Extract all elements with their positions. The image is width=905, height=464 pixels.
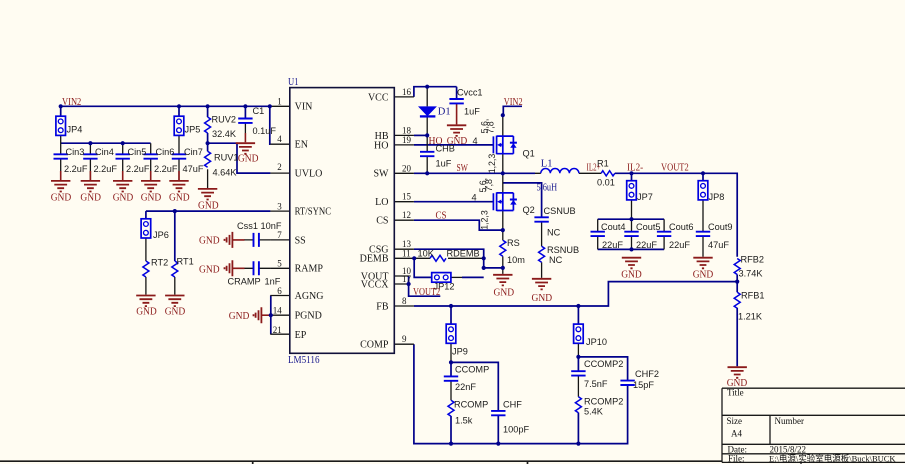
svg-text:Title: Title: [727, 388, 744, 398]
svg-text:GND: GND: [136, 306, 157, 318]
svg-text:1uF: 1uF: [436, 159, 452, 169]
svg-text:4: 4: [472, 193, 477, 203]
svg-text:JP8: JP8: [709, 192, 725, 202]
svg-text:7.5nF: 7.5nF: [584, 379, 608, 389]
svg-text:RCOMP2: RCOMP2: [584, 397, 623, 407]
svg-text:15pF: 15pF: [633, 380, 654, 390]
svg-text:3: 3: [277, 201, 282, 211]
svg-text:RT2: RT2: [151, 258, 168, 268]
svg-text:1: 1: [277, 96, 282, 106]
svg-text:HO: HO: [429, 135, 443, 147]
svg-text:17: 17: [402, 274, 412, 284]
svg-text:CS: CS: [436, 210, 447, 222]
svg-text:GND: GND: [199, 234, 220, 246]
svg-text:Cin7: Cin7: [184, 147, 203, 157]
svg-text:22uF: 22uF: [602, 240, 623, 250]
svg-text:GND: GND: [51, 191, 72, 203]
svg-text:7,8: 7,8: [484, 179, 494, 191]
svg-text:DEMB: DEMB: [360, 254, 389, 265]
svg-text:RUV1: RUV1: [214, 153, 239, 163]
svg-text:10m: 10m: [507, 255, 525, 265]
svg-text:RS: RS: [507, 238, 520, 248]
svg-text:Cout9: Cout9: [708, 222, 733, 232]
svg-text:C1: C1: [253, 106, 265, 116]
svg-text:10nF: 10nF: [261, 221, 282, 231]
svg-text:47uF: 47uF: [708, 240, 729, 250]
svg-text:47uF: 47uF: [183, 164, 204, 174]
svg-text:2.2uF: 2.2uF: [94, 164, 118, 174]
svg-text:10K: 10K: [418, 249, 435, 259]
svg-text:GND: GND: [169, 191, 190, 203]
svg-text:2.2uF: 2.2uF: [154, 164, 178, 174]
svg-text:RFB2: RFB2: [741, 255, 765, 265]
svg-text:JP4: JP4: [67, 125, 83, 135]
svg-text:0.1uF: 0.1uF: [253, 126, 277, 136]
svg-text:CRAMP: CRAMP: [228, 276, 261, 286]
svg-text:EP: EP: [295, 330, 307, 341]
svg-text:20: 20: [402, 163, 412, 173]
svg-text:VIN: VIN: [295, 102, 313, 113]
svg-text:IL2+: IL2+: [587, 161, 601, 173]
svg-text:1,2,3: 1,2,3: [487, 154, 497, 174]
svg-text:Cout6: Cout6: [669, 222, 694, 232]
svg-text:NC: NC: [547, 228, 561, 238]
svg-text:Number: Number: [775, 416, 805, 426]
svg-text:22uF: 22uF: [636, 240, 657, 250]
svg-text:RT/SYNC: RT/SYNC: [295, 207, 332, 218]
svg-text:U1: U1: [288, 77, 299, 88]
svg-text:Size: Size: [727, 416, 743, 426]
svg-text:32.4K: 32.4K: [212, 129, 237, 139]
svg-text:RUV2: RUV2: [212, 115, 237, 125]
svg-text:6: 6: [277, 286, 282, 296]
svg-text:COMP: COMP: [360, 340, 389, 351]
svg-text:Cvcc1: Cvcc1: [457, 88, 483, 98]
svg-text:GND: GND: [447, 135, 468, 147]
svg-text:21: 21: [273, 325, 282, 335]
svg-text:JP10: JP10: [586, 337, 607, 347]
svg-text:GND: GND: [113, 191, 134, 203]
svg-text:22nF: 22nF: [455, 382, 476, 392]
svg-text:LM5116: LM5116: [288, 355, 320, 366]
svg-text:4: 4: [277, 134, 282, 144]
svg-text:2.2uF: 2.2uF: [126, 164, 150, 174]
svg-text:9: 9: [402, 334, 407, 344]
svg-text:UVLO: UVLO: [295, 169, 323, 180]
svg-text:NC: NC: [549, 255, 563, 265]
svg-text:VOUT2: VOUT2: [413, 286, 440, 298]
svg-text:7,8: 7,8: [486, 121, 496, 133]
svg-text:Q2: Q2: [523, 205, 535, 215]
svg-text:5: 5: [277, 258, 282, 268]
svg-text:SS: SS: [295, 235, 306, 246]
svg-text:L1: L1: [541, 159, 553, 170]
svg-text:CS: CS: [376, 216, 388, 227]
svg-text:1.5k: 1.5k: [455, 416, 473, 426]
svg-text:15: 15: [402, 192, 412, 202]
svg-text:100pF: 100pF: [503, 425, 529, 435]
svg-text:AGNG: AGNG: [295, 291, 324, 302]
svg-text:VIN2: VIN2: [62, 96, 81, 108]
svg-text:JP5: JP5: [185, 125, 201, 135]
svg-text:GND: GND: [621, 268, 642, 280]
svg-text:Cout4: Cout4: [601, 222, 626, 232]
svg-text:CHF2: CHF2: [635, 369, 659, 379]
svg-text:CCOMP: CCOMP: [455, 365, 489, 375]
svg-text:1,2,3: 1,2,3: [479, 210, 489, 230]
svg-text:VCCX: VCCX: [361, 279, 390, 290]
svg-text:Cin5: Cin5: [128, 147, 147, 157]
svg-text:CSNUB: CSNUB: [544, 206, 576, 216]
svg-text:16: 16: [402, 87, 412, 97]
svg-text:PGND: PGND: [295, 311, 322, 322]
svg-text:VIN2: VIN2: [504, 96, 523, 108]
svg-text:GND: GND: [165, 306, 186, 318]
svg-text:A4: A4: [731, 429, 742, 439]
svg-text:3.74K: 3.74K: [739, 269, 764, 279]
svg-text:2: 2: [277, 162, 282, 172]
svg-text:D1: D1: [438, 107, 451, 118]
svg-text:4: 4: [473, 136, 478, 146]
svg-text:GND: GND: [198, 200, 219, 212]
svg-text:Cin4: Cin4: [95, 147, 114, 157]
svg-text:LO: LO: [375, 197, 388, 208]
svg-text:12: 12: [402, 210, 411, 220]
svg-text:EN: EN: [295, 140, 308, 151]
svg-text:22uF: 22uF: [669, 240, 690, 250]
svg-text:JP9: JP9: [452, 347, 468, 357]
svg-text:11: 11: [402, 248, 411, 258]
svg-text:18: 18: [402, 125, 412, 135]
svg-text:CHF: CHF: [503, 400, 522, 410]
svg-text:RAMP: RAMP: [295, 264, 324, 275]
svg-text:SW: SW: [374, 169, 390, 180]
svg-text:VCC: VCC: [368, 92, 389, 103]
svg-text:1.21K: 1.21K: [738, 312, 763, 322]
svg-text:E:\电源\实验室电源板\Buck\BUCK: E:\电源\实验室电源板\Buck\BUCK: [769, 453, 896, 463]
svg-text:JP6: JP6: [153, 230, 169, 240]
svg-text:Cout5: Cout5: [636, 222, 661, 232]
svg-text:RFB1: RFB1: [741, 291, 765, 301]
svg-text:JP7: JP7: [637, 192, 653, 202]
svg-text:RCOMP: RCOMP: [454, 400, 488, 410]
svg-text:FB: FB: [376, 301, 389, 312]
svg-text:RSNUB: RSNUB: [547, 245, 579, 255]
svg-text:19: 19: [402, 135, 412, 145]
svg-text:File:: File:: [728, 453, 745, 463]
svg-text:GND: GND: [229, 310, 250, 322]
svg-text:GND: GND: [238, 153, 259, 165]
svg-text:0.01: 0.01: [597, 178, 615, 188]
svg-text:CCOMP2: CCOMP2: [584, 359, 623, 369]
svg-text:Cin3: Cin3: [66, 147, 85, 157]
svg-text:Cin6: Cin6: [156, 147, 175, 157]
svg-text:GND: GND: [532, 292, 553, 304]
svg-text:14: 14: [273, 306, 283, 316]
svg-text:GND: GND: [494, 287, 515, 299]
svg-text:7: 7: [277, 230, 282, 240]
svg-text:IL2-: IL2-: [627, 161, 643, 173]
svg-text:5.6uH: 5.6uH: [537, 182, 558, 193]
svg-text:GND: GND: [80, 191, 101, 203]
svg-text:2.2uF: 2.2uF: [64, 164, 88, 174]
svg-text:HO: HO: [374, 140, 388, 151]
svg-text:8: 8: [402, 296, 407, 306]
svg-text:4.64K: 4.64K: [213, 168, 238, 178]
svg-text:5.4K: 5.4K: [584, 407, 604, 417]
svg-text:1uF: 1uF: [464, 107, 480, 117]
svg-text:GND: GND: [141, 191, 162, 203]
svg-text:VOUT2: VOUT2: [661, 161, 689, 173]
svg-text:1nF: 1nF: [265, 276, 281, 286]
svg-text:Q1: Q1: [523, 149, 535, 159]
svg-text:GND: GND: [199, 264, 220, 276]
svg-text:RT1: RT1: [177, 257, 194, 267]
svg-text:SW: SW: [457, 162, 469, 174]
svg-text:Css1: Css1: [237, 221, 258, 231]
svg-text:RDEMB: RDEMB: [447, 249, 480, 259]
svg-text:GND: GND: [693, 268, 714, 280]
